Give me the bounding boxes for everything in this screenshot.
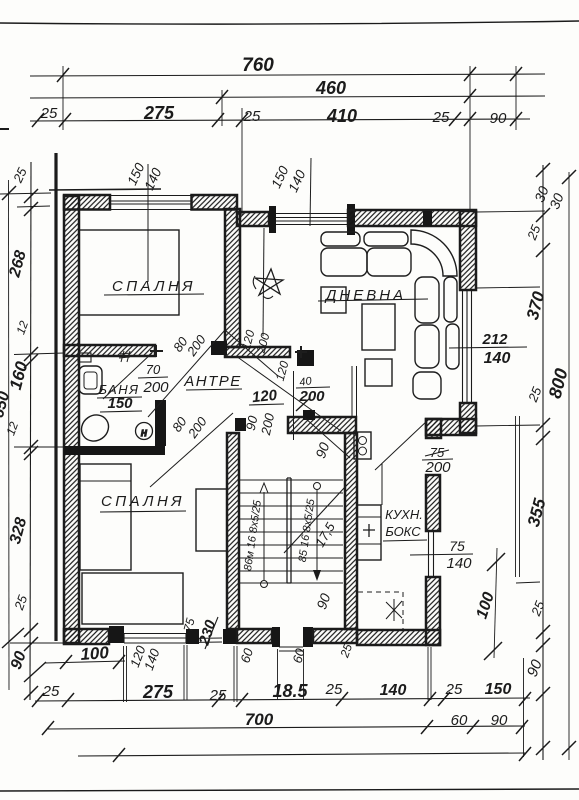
door jamb hall window left bbox=[269, 206, 276, 233]
stairs: diagonal bbox=[284, 487, 345, 553]
threshold lines below stair exit bbox=[279, 647, 303, 651]
wall: hall/stair top bbox=[288, 417, 356, 433]
bedroom bottom name underline bbox=[100, 511, 186, 512]
dim 100 right lower bbox=[494, 548, 497, 658]
kitchen: counter with sink bbox=[357, 505, 381, 560]
svg-text:200: 200 bbox=[298, 388, 325, 405]
kitchen line above label bbox=[381, 463, 383, 505]
svg-text:90: 90 bbox=[491, 712, 508, 729]
svg-text:140: 140 bbox=[380, 682, 407, 699]
wall: stair left bbox=[227, 433, 239, 629]
wall: stair bottom right bbox=[313, 629, 357, 643]
hall/door leader diagonals bbox=[150, 413, 233, 487]
dim line right 800 bbox=[568, 172, 570, 760]
svg-text:25: 25 bbox=[40, 105, 58, 122]
svg-text:25: 25 bbox=[432, 109, 450, 126]
leader kitchen window bbox=[410, 554, 473, 555]
wall: bath east bbox=[155, 400, 166, 446]
wall: bedroom/bath partition bbox=[64, 345, 155, 356]
bedroom bottom: bed bbox=[80, 464, 131, 570]
dim line top A 760 bbox=[30, 74, 545, 76]
svg-text:100: 100 bbox=[80, 643, 110, 664]
jamb: bottom wall block A bbox=[109, 626, 124, 643]
window axis bedroom top bbox=[147, 164, 149, 282]
bedroom top name underline bbox=[104, 294, 204, 295]
living: sofa back cushion 2 bbox=[364, 232, 408, 246]
window axis hall top bbox=[310, 158, 311, 226]
kitchen: stove with burners bbox=[354, 432, 371, 459]
hash mark on bedroom south wall bbox=[119, 351, 131, 362]
hall 120 underline bbox=[249, 404, 284, 405]
dim line bottom third bbox=[78, 753, 525, 756]
stairs: central stringer bbox=[287, 478, 291, 583]
wall: right lower block bbox=[460, 403, 476, 433]
svg-text:140: 140 bbox=[446, 555, 472, 572]
jamb: stair door left bbox=[235, 418, 246, 431]
dim line right main bbox=[542, 165, 544, 760]
svg-text:140: 140 bbox=[484, 350, 511, 367]
living: right seat 2 bbox=[415, 325, 439, 368]
svg-text:25: 25 bbox=[209, 687, 227, 704]
svg-text:60: 60 bbox=[451, 712, 468, 729]
column in living top wall bbox=[423, 211, 432, 226]
bedroom bottom: wardrobe bbox=[82, 573, 183, 624]
dim line left main bbox=[30, 162, 31, 700]
facade line above top-left wall bbox=[49, 189, 161, 190]
svg-text:АНТРЕ: АНТРЕ bbox=[183, 373, 242, 390]
svg-text:18.5: 18.5 bbox=[272, 681, 308, 701]
living: table bbox=[362, 304, 395, 350]
jamb: bedroom door post bbox=[211, 341, 227, 355]
bottom extension lines bbox=[124, 645, 524, 757]
living: armchair bbox=[321, 287, 346, 313]
T jamb symbol bath door top bbox=[150, 345, 163, 357]
bottom border line bbox=[0, 789, 579, 791]
top border line bbox=[0, 21, 579, 24]
jamb: living top wall left end bbox=[347, 204, 355, 235]
svg-text:90: 90 bbox=[490, 110, 507, 127]
hall 40/200 line bbox=[296, 387, 330, 388]
svg-text:25: 25 bbox=[325, 681, 343, 698]
kitchen door label lines bbox=[422, 450, 453, 460]
svg-text:КУХН.: КУХН. bbox=[385, 507, 423, 522]
stairs: down reference line right with arrow bbox=[316, 490, 318, 572]
left margin dash bbox=[0, 128, 9, 130]
wall: kitchen east lower bbox=[426, 577, 440, 645]
svg-text:120: 120 bbox=[251, 387, 278, 407]
living: sofa right back 2 bbox=[446, 324, 459, 369]
svg-text:700: 700 bbox=[245, 710, 274, 729]
svg-text:760: 760 bbox=[242, 55, 274, 76]
window: bedroom top (150/140) bbox=[110, 196, 192, 210]
T jamb symbol hall north bbox=[295, 346, 307, 358]
window: living right (212/140) bbox=[460, 290, 476, 403]
bath 150 underline bbox=[100, 411, 142, 412]
living: sofa corner arc bbox=[411, 230, 457, 276]
svg-text:75: 75 bbox=[449, 538, 465, 554]
svg-text:460: 460 bbox=[315, 78, 346, 98]
svg-text:25: 25 bbox=[243, 108, 261, 125]
svg-text:ДНЕВНА: ДНЕВНА bbox=[324, 287, 406, 304]
kitchen: lamp symbol bbox=[386, 599, 402, 621]
svg-text:275: 275 bbox=[142, 682, 174, 702]
underline 230 bbox=[205, 617, 218, 649]
jamb: bottom wall block B bbox=[186, 629, 199, 644]
hall jamb extension line bbox=[293, 371, 295, 440]
svg-text:75: 75 bbox=[430, 445, 445, 460]
stairs: up reference line left with circle bbox=[263, 492, 265, 580]
right double extension bbox=[516, 416, 520, 577]
bath name underline bbox=[97, 397, 142, 398]
window: bedroom bottom (120/140) bbox=[124, 634, 222, 644]
wall: hall top bbox=[237, 212, 269, 226]
dim line bottom 700/60/90 bbox=[48, 726, 525, 729]
wall: kitchen bottom bbox=[357, 630, 440, 645]
jamb: stair exit left bbox=[272, 627, 280, 647]
kitchen: dashed partition bbox=[358, 592, 403, 630]
jamb: stair top middle bbox=[303, 410, 315, 420]
wall: bottom left pier bbox=[64, 629, 109, 644]
bedroom top: carpet/bed outline bbox=[79, 230, 179, 315]
wall: kitchen east upper bbox=[426, 475, 440, 531]
bath door label line bbox=[138, 377, 168, 378]
dim line left outer 650 bbox=[8, 180, 11, 690]
living: seat cushion 1 bbox=[321, 248, 367, 276]
leader 212/140 bbox=[449, 347, 527, 348]
wall: top bedroom left pier bbox=[64, 195, 110, 210]
jamb: kitchen door top bbox=[426, 419, 441, 438]
svg-text:н: н bbox=[141, 427, 147, 439]
right extension lines bbox=[476, 211, 545, 583]
svg-text:25: 25 bbox=[445, 681, 463, 698]
dim line 100 bottom-left bbox=[45, 661, 125, 663]
svg-text:200: 200 bbox=[142, 379, 169, 396]
svg-text:275: 275 bbox=[143, 103, 175, 123]
wall: stair right bbox=[345, 433, 357, 629]
svg-text:СПАЛНЯ: СПАЛНЯ bbox=[101, 493, 185, 510]
svg-text:25: 25 bbox=[42, 683, 60, 700]
top extension lines bbox=[63, 66, 516, 215]
dim line bottom 25/275/25/185/25/140/25/150 bbox=[35, 698, 530, 701]
bath: wash basin bbox=[79, 366, 102, 394]
jamb: bottom wall block C bbox=[223, 629, 237, 644]
wall: living room bottom bbox=[426, 419, 476, 435]
jamb: stair exit right bbox=[303, 627, 313, 647]
bedroom bottom: desk bbox=[196, 489, 227, 551]
wall: hall north (bedroom south) bbox=[225, 347, 290, 357]
living: sofa back cushion 1 bbox=[321, 232, 360, 246]
svg-text:150: 150 bbox=[107, 395, 133, 412]
stairs: treads bbox=[239, 480, 343, 583]
svg-text:70: 70 bbox=[146, 362, 161, 377]
living: seat cushion 2 bbox=[367, 248, 411, 276]
window: hall top (150/140) bbox=[276, 214, 348, 225]
wall: stair bottom left bbox=[237, 629, 272, 643]
dim line top B 460 bbox=[30, 96, 545, 98]
living name strikethrough bbox=[318, 299, 428, 301]
tick on hall underline bbox=[296, 398, 310, 411]
svg-text:200: 200 bbox=[424, 459, 451, 476]
wall: top bedroom right pier bbox=[192, 195, 238, 210]
heavy facade line left bbox=[54, 153, 57, 641]
svg-text:150: 150 bbox=[485, 681, 512, 698]
wall: right upper bbox=[460, 211, 476, 290]
hall name underline bbox=[186, 389, 242, 390]
svg-text:212: 212 bbox=[481, 331, 508, 348]
dim line top C 25/275/25/410/25/90 bbox=[30, 119, 530, 121]
wall: bath south bbox=[64, 446, 165, 455]
svg-text:СПАЛНЯ: СПАЛНЯ bbox=[112, 278, 196, 295]
living: chandelier symbol bbox=[255, 269, 283, 295]
living: bottom right seat bbox=[413, 372, 441, 399]
bath: circled H symbol bbox=[136, 423, 153, 440]
bath: toilet bbox=[76, 410, 113, 447]
window: kitchen east (75/140) bbox=[426, 531, 440, 577]
kitchen name underline bbox=[383, 540, 427, 541]
wall: exterior left bbox=[64, 196, 79, 643]
left diag ticks near 90 bbox=[2, 628, 46, 682]
wall: living room top bbox=[348, 210, 476, 226]
wall: partition bedroom/hall bbox=[225, 209, 240, 347]
svg-text:410: 410 bbox=[326, 106, 357, 126]
svg-text:БОКС: БОКС bbox=[385, 524, 421, 539]
living: sofa right back 1 bbox=[444, 277, 457, 322]
jamb: hall north east post bbox=[297, 350, 314, 366]
living: coffee table bbox=[365, 359, 392, 386]
opening between hall and living bbox=[352, 366, 357, 417]
living: right seat 1 bbox=[415, 277, 439, 323]
left extension lines bbox=[0, 193, 64, 643]
